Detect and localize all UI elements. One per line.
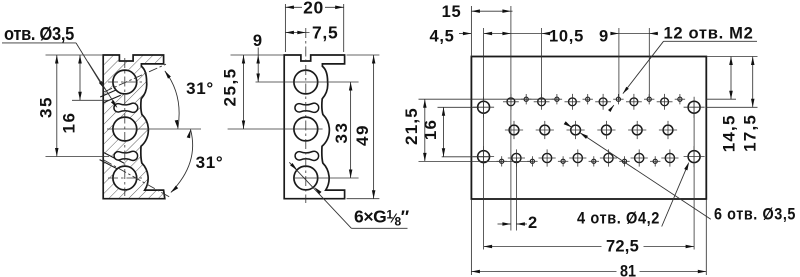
port circle 2 (section) (113, 117, 137, 141)
svg-text:25,5: 25,5 (220, 67, 239, 106)
svg-text:7,5: 7,5 (312, 23, 338, 43)
dim 7,5 (285, 32, 309, 34)
svg-text:72,5: 72,5 (606, 238, 639, 256)
front view body outline (284, 55, 344, 199)
port circle 2 (front) (294, 117, 318, 141)
dim 81 (471, 271, 616, 273)
label 6xG1/8 with leader (289, 162, 351, 228)
dim 2 (498, 223, 511, 225)
dogbone slot 2 (front) (295, 151, 319, 160)
dogbone slot 1 (front) (295, 103, 319, 112)
dim 15 (471, 10, 512, 12)
svg-text:отв. Ø3,5: отв. Ø3,5 (4, 24, 74, 44)
dim 49 (347, 54, 380, 56)
plate rectangle (471, 57, 706, 200)
svg-text:31°: 31° (196, 153, 224, 172)
svg-text:6 отв. Ø3,5: 6 отв. Ø3,5 (714, 205, 796, 224)
svg-text:4,5: 4,5 (429, 28, 454, 46)
corner holes 4.2 (478, 101, 490, 113)
svg-text:14,5: 14,5 (720, 114, 739, 152)
bottom row port holes (512, 153, 521, 162)
dim 17,5 (706, 106, 757, 108)
svg-text:20: 20 (303, 0, 324, 17)
svg-text:31°: 31° (186, 79, 214, 98)
svg-text:16: 16 (421, 119, 440, 140)
svg-text:21,5: 21,5 (402, 107, 421, 145)
dim 20 (284, 4, 286, 52)
angle arc lower 31deg (171, 129, 193, 192)
dim 35 (46, 54, 104, 56)
angle arc upper 31deg (165, 71, 179, 129)
horizontal centerline circle3 (108, 177, 142, 179)
section hatching (95, 50, 175, 205)
svg-text:12 отв. М2: 12 отв. М2 (664, 24, 754, 43)
inclined passage channel lower (100, 152, 124, 170)
port circle 1 (front) (294, 70, 318, 94)
svg-text:81: 81 (620, 262, 636, 277)
svg-text:9: 9 (253, 32, 263, 50)
inclined passage channel upper (100, 89, 121, 103)
dim 16 (72, 99, 109, 101)
middle row holes 3.5 (509, 125, 519, 135)
svg-text:10,5: 10,5 (549, 28, 584, 46)
section outline stroke (103, 55, 165, 199)
svg-text:33: 33 (332, 122, 351, 144)
centerline circle3 + ext for 33 (294, 177, 359, 179)
svg-text:4 отв. Ø4,2: 4 отв. Ø4,2 (577, 209, 660, 228)
dim 72,5 (484, 246, 602, 248)
top row port holes (507, 98, 515, 106)
port circle 3 (section) (113, 166, 137, 190)
dim 14,5 (706, 56, 757, 58)
horizontal centerline circle1 (108, 81, 142, 83)
svg-text:17,5: 17,5 (741, 114, 760, 152)
vertical centerline (front) (305, 28, 307, 203)
top row M2 holes (524, 97, 528, 101)
svg-text:16: 16 (60, 112, 79, 134)
inclined axis lower 31deg (104, 160, 171, 198)
dim 33 (350, 82, 352, 178)
horizontal centerline circle2 extended (107, 128, 201, 130)
port circle 3 (front) (294, 166, 318, 190)
centerline circle1 + ext for 33 (256, 81, 359, 83)
dogbone slot 2 (section) (114, 151, 138, 160)
dim 25,5 (243, 55, 245, 129)
section view body outline (103, 55, 165, 199)
svg-text:9: 9 (599, 28, 609, 46)
vertical centerline (section) (124, 58, 126, 196)
svg-text:15: 15 (442, 3, 462, 21)
svg-text:6×G1⁄8″: 6×G1⁄8″ (354, 207, 410, 229)
dim 9 (front) (231, 54, 285, 56)
dim 16 (top view) (438, 106, 480, 108)
centerline circle2 + ext for 25.5 (228, 128, 323, 130)
svg-text:2: 2 (528, 214, 538, 232)
bottom row M2 holes (500, 159, 504, 163)
svg-text:49: 49 (353, 124, 372, 146)
dogbone slot 1 (section) (114, 103, 138, 112)
svg-text:35: 35 (37, 96, 56, 118)
dim 4,5 / 10,5 / 9 chain (459, 33, 471, 35)
inclined axis upper 31deg (104, 64, 166, 92)
port circle 1 (section) (113, 70, 137, 94)
dim 21,5 (419, 98, 561, 100)
extension verticals (470, 6, 472, 57)
